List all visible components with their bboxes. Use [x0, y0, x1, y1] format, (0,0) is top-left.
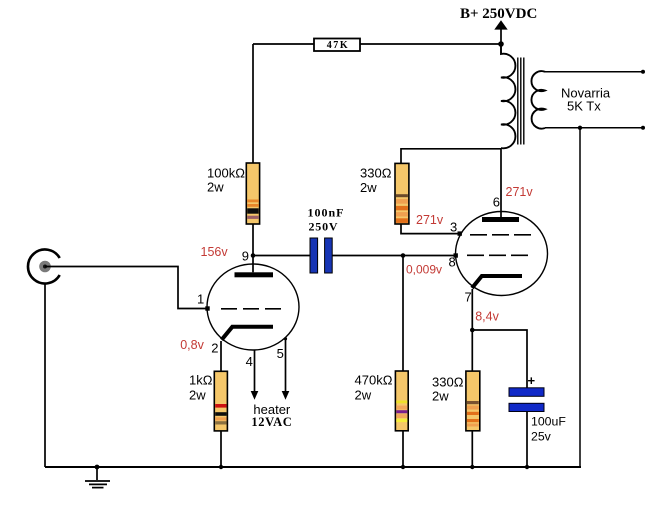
tube V2 envelope [456, 212, 548, 296]
node grid2 junction [401, 253, 406, 258]
wire 100k bottom to node [252, 224, 254, 256]
node secondary bottom terminal [641, 126, 645, 130]
capacitor 100uF electrolytic [509, 388, 544, 412]
svg-text:8,4v: 8,4v [475, 309, 499, 323]
wire secondary top terminal [545, 71, 643, 73]
capacitor 100nF [310, 238, 332, 273]
ground rail [45, 466, 581, 468]
tube V2 cathode [472, 276, 522, 288]
svg-text:9: 9 [242, 249, 249, 264]
wire primary bottom to screen resistor [401, 149, 501, 163]
wire node to pin 8 [403, 255, 456, 257]
transformer T1 secondary [531, 71, 545, 128]
wire cap to rail [526, 412, 528, 468]
svg-text:4: 4 [246, 354, 253, 369]
tube V2 plate [482, 217, 519, 222]
wire 1k to rail [220, 431, 222, 467]
wire 470k bottom to rail [402, 431, 404, 467]
resistor 470k body [395, 371, 408, 431]
svg-text:5: 5 [277, 346, 284, 361]
wire node to coupling cap [253, 255, 310, 257]
svg-text:7: 7 [465, 290, 472, 305]
resistor 330 screen body [395, 163, 409, 224]
svg-text:100nF: 100nF [308, 206, 345, 220]
node 100uF-to-rail junction [525, 465, 529, 469]
svg-text:2w: 2w [355, 388, 372, 403]
svg-text:330Ω: 330Ω [360, 166, 392, 181]
wire cathode V2 down [471, 289, 473, 371]
svg-text:271v: 271v [506, 185, 534, 199]
wire 330 screen to pin 3 [401, 224, 460, 234]
node 1k-to-rail junction [219, 465, 223, 469]
wire jack sleeve to ground rail [44, 284, 46, 468]
wire 470k top to grid node [402, 256, 404, 372]
svg-text:100kΩ: 100kΩ [207, 166, 245, 181]
tube V2 screen grid (dashed) [470, 234, 532, 236]
wire cap to pin8 node [332, 255, 403, 257]
wire cathode V1 down [220, 341, 222, 371]
svg-text:5K Tx: 5K Tx [567, 99, 601, 114]
node secondary top terminal [641, 70, 645, 74]
node pin 3 connection [458, 231, 462, 235]
svg-text:12VAC: 12VAC [251, 415, 292, 429]
svg-text:B+ 250VDC: B+ 250VDC [460, 6, 537, 22]
wire top rail from 100k top to B+ junction [253, 43, 501, 45]
pin 5 heater lead with arrow [285, 339, 287, 392]
wire plate V1 to node [252, 256, 254, 273]
svg-text:6: 6 [493, 195, 500, 210]
svg-text:0,8v: 0,8v [180, 338, 204, 352]
svg-text:+: + [528, 373, 536, 388]
node pin9 junction [251, 253, 256, 258]
tube V1 plate [235, 272, 274, 277]
svg-text:2w: 2w [432, 389, 449, 404]
svg-text:47K: 47K [327, 40, 350, 51]
svg-text:25v: 25v [531, 430, 552, 444]
node cathode junction [470, 328, 475, 333]
svg-text:271v: 271v [416, 213, 444, 227]
tube V2 control grid (dashed) [467, 254, 531, 256]
node B+ junction [498, 41, 504, 47]
transformer T1 core [518, 58, 524, 145]
node secondary ground tap [578, 126, 582, 130]
node pin 5 connection [284, 337, 287, 340]
resistor 330 cathode body [466, 371, 480, 431]
node 470k-to-rail junction [401, 465, 405, 469]
input jack J1 [28, 250, 60, 284]
svg-text:0,009v: 0,009v [406, 263, 442, 277]
node pin 8 connection [454, 253, 458, 257]
svg-text:330Ω: 330Ω [432, 375, 464, 390]
svg-text:1: 1 [197, 291, 204, 306]
wire 330 cathode to rail [471, 431, 473, 467]
wire secondary tap down to ground rail [579, 128, 581, 467]
svg-text:470kΩ: 470kΩ [355, 373, 393, 388]
svg-text:156v: 156v [201, 245, 229, 259]
pin 4 heater lead with arrow [254, 350, 256, 392]
resistor 100k body [246, 163, 259, 224]
svg-text:1kΩ: 1kΩ [189, 373, 213, 388]
resistor 47K box [314, 39, 360, 52]
wire jack to grid pin 1 [45, 267, 207, 309]
B+ arrow [500, 29, 502, 44]
wire primary bottom to plate pin 6 [500, 148, 502, 217]
svg-text:100uF: 100uF [531, 415, 566, 429]
node pin 1 connection [205, 306, 209, 310]
svg-text:2w: 2w [189, 388, 206, 403]
tube V1 grid (dashed) [221, 308, 284, 310]
tube V1 cathode [222, 327, 273, 340]
wire to electrolytic cap [472, 330, 527, 388]
svg-text:2w: 2w [360, 180, 377, 195]
svg-text:2: 2 [211, 340, 218, 355]
svg-text:250V: 250V [309, 220, 339, 234]
ground symbol [85, 465, 110, 488]
svg-text:8: 8 [449, 255, 456, 270]
wire drop to 100k resistor top [252, 44, 254, 163]
tube V1 envelope [207, 264, 299, 350]
node 330-cathode-to-rail junction [470, 465, 474, 469]
svg-text:2w: 2w [207, 180, 224, 195]
resistor 1k body [214, 371, 227, 431]
transformer T1 primary [501, 44, 515, 148]
svg-text:3: 3 [450, 219, 457, 234]
wire secondary bottom terminal [545, 127, 643, 129]
